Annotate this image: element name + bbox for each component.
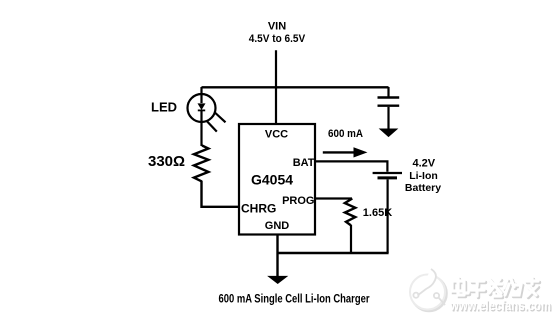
wire bottom rail	[278, 252, 389, 254]
svg-text:600 mA: 600 mA	[328, 128, 363, 140]
svg-text:600 mA Single Cell Li-Ion Char: 600 mA Single Cell Li-Ion Charger	[219, 294, 370, 306]
svg-text:Li-Ion: Li-Ion	[409, 170, 438, 182]
svg-text:4.2V: 4.2V	[412, 157, 435, 169]
watermark logo circle	[410, 269, 447, 311]
svg-text:CHRG: CHRG	[241, 202, 276, 216]
svg-text:Battery: Battery	[405, 182, 441, 194]
wire LED to resistor	[200, 122, 202, 146]
svg-text:LED: LED	[151, 99, 177, 114]
current flow arrow	[323, 148, 366, 157]
svg-text:1.65K: 1.65K	[363, 207, 392, 219]
svg-text:4.5V to 6.5V: 4.5V to 6.5V	[249, 33, 306, 45]
svg-text:G4054: G4054	[251, 171, 293, 187]
svg-text:www.elecfans.com: www.elecfans.com	[449, 298, 551, 313]
battery BT1	[373, 173, 402, 253]
svg-text:PROG: PROG	[282, 195, 314, 207]
wire BAT to battery	[315, 161, 387, 171]
watermark chinese text (drawn strokes, brush-style approximation, embossed)	[452, 278, 540, 298]
wire resistor to bottom rail	[350, 225, 352, 253]
svg-text:330Ω: 330Ω	[148, 153, 185, 170]
wire VIN vertical to VCC	[275, 50, 277, 124]
ground for capacitor	[380, 129, 397, 136]
svg-text:BAT: BAT	[293, 157, 315, 169]
capacitor C1 (input bypass)	[378, 87, 400, 129]
wire GND pin down	[276, 235, 278, 277]
IC U1 G4054 body	[239, 124, 315, 235]
svg-text:VCC: VCC	[265, 129, 288, 141]
svg-text:VIN: VIN	[268, 21, 286, 33]
LED D1 (indicator with light arrows)	[188, 87, 226, 132]
resistor R1 330 ohm	[194, 146, 209, 182]
ground for GND pin	[269, 276, 287, 283]
svg-text:GND: GND	[265, 220, 290, 232]
wire PROG to resistor	[315, 197, 352, 199]
wire top horizontal rail	[202, 86, 389, 88]
resistor R2 1.65K (PROG)	[345, 199, 356, 226]
wire resistor to CHRG corner	[202, 181, 240, 207]
